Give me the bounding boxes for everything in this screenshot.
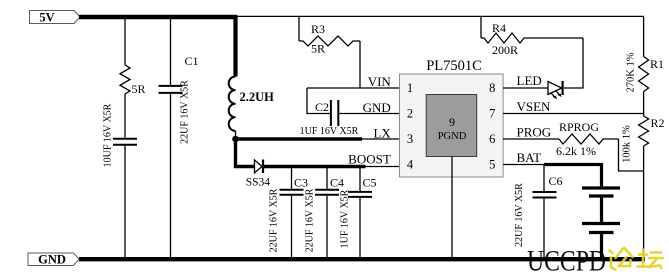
svg-text:200R: 200R xyxy=(492,43,518,57)
svg-text:PGND: PGND xyxy=(438,131,467,142)
svg-text:PROG: PROG xyxy=(517,125,552,140)
svg-text:5R: 5R xyxy=(311,42,325,56)
svg-text:C2: C2 xyxy=(315,100,329,114)
svg-text:22UF 16V X5R: 22UF 16V X5R xyxy=(180,80,191,144)
svg-text:270K 1%: 270K 1% xyxy=(626,52,637,92)
wire 5V rail thick xyxy=(79,15,237,19)
svg-text:1UF 16V X5R: 1UF 16V X5R xyxy=(300,126,359,137)
svg-text:SS34: SS34 xyxy=(246,177,271,189)
wire VIN xyxy=(307,87,400,89)
inductor 2.2UH xyxy=(229,15,274,139)
svg-text:R4: R4 xyxy=(492,21,506,35)
svg-text:5V: 5V xyxy=(39,10,54,24)
wire LX xyxy=(236,137,400,140)
svg-text:C5: C5 xyxy=(363,176,377,190)
svg-text:RPROG: RPROG xyxy=(559,120,599,134)
LED D1 xyxy=(548,81,563,99)
capacitor C6 xyxy=(514,165,563,259)
svg-text:C4: C4 xyxy=(330,176,344,190)
svg-text:22UF 16V X5R: 22UF 16V X5R xyxy=(514,183,525,247)
GND power tag xyxy=(28,252,79,266)
svg-text:3: 3 xyxy=(407,132,413,146)
wire pin 9 PGND to ground xyxy=(451,157,453,259)
resistor R1 xyxy=(626,16,665,113)
wire R4 to LED cathode xyxy=(564,38,583,88)
resistor R3 xyxy=(299,16,360,55)
svg-text:GND: GND xyxy=(38,252,66,266)
GND rail wire xyxy=(79,257,645,261)
svg-text:C3: C3 xyxy=(294,176,308,190)
svg-text:8: 8 xyxy=(489,81,495,95)
diode SS34 xyxy=(246,160,271,189)
IC inner pad PGND box xyxy=(426,95,477,157)
wire BOOST left segment xyxy=(236,139,255,167)
svg-text:7: 7 xyxy=(489,106,495,120)
resistor RPROG xyxy=(503,120,644,171)
svg-text:10UF 16V X5R: 10UF 16V X5R xyxy=(103,103,114,167)
svg-text:PL7501C: PL7501C xyxy=(426,58,482,74)
svg-text:LED: LED xyxy=(517,73,542,88)
svg-text:C1: C1 xyxy=(185,54,199,68)
svg-text:VIN: VIN xyxy=(368,74,392,89)
op-amp U1 PL7501C body xyxy=(400,58,504,177)
svg-text:GND: GND xyxy=(363,100,391,115)
wire 5V rail thin extension xyxy=(235,15,644,17)
svg-text:BAT: BAT xyxy=(517,150,542,165)
wire BAT thick xyxy=(544,163,602,166)
resistor R2 xyxy=(622,114,665,259)
capacitor 10UF 16V X5R xyxy=(103,103,138,258)
svg-text:22UF 16V X5R: 22UF 16V X5R xyxy=(305,188,316,252)
capacitor C1 xyxy=(159,19,199,258)
resistor 5R (input) xyxy=(120,19,146,138)
svg-text:5R: 5R xyxy=(132,82,146,96)
5V power tag xyxy=(30,10,81,24)
svg-text:BOOST: BOOST xyxy=(348,152,391,167)
wire BAT thin xyxy=(503,164,545,166)
svg-text:6.2k 1%: 6.2k 1% xyxy=(556,144,596,158)
svg-text:9: 9 xyxy=(449,115,455,129)
wire pin 8 to LED anode xyxy=(503,87,548,89)
capacitor C3 xyxy=(269,167,309,259)
capacitor C4 xyxy=(305,167,345,259)
battery BT1 xyxy=(582,163,620,259)
junction LX node xyxy=(232,136,239,143)
svg-text:4: 4 xyxy=(407,157,414,171)
svg-text:VSEN: VSEN xyxy=(517,99,552,114)
svg-text:R1: R1 xyxy=(650,57,664,71)
svg-text:5: 5 xyxy=(489,157,495,171)
svg-text:2.2UH: 2.2UH xyxy=(240,90,275,104)
svg-text:R2: R2 xyxy=(651,116,665,130)
wire VSEN to divider xyxy=(503,113,644,115)
svg-text:C6: C6 xyxy=(549,174,563,188)
svg-text:22UF 16V X5R: 22UF 16V X5R xyxy=(269,188,280,252)
svg-text:2: 2 xyxy=(407,106,413,120)
svg-text:UCCPD: UCCPD xyxy=(527,245,606,275)
capacitor C5 xyxy=(340,167,377,259)
resistor R4 xyxy=(481,16,583,57)
svg-text:1UF 16V X5R: 1UF 16V X5R xyxy=(340,189,351,248)
wire BOOST right of diode xyxy=(264,165,400,168)
svg-text:1: 1 xyxy=(407,81,413,95)
capacitor C2 with loop wires xyxy=(300,88,400,137)
wire R3 to VIN xyxy=(359,41,361,88)
watermark UCCPD forum xyxy=(527,245,663,275)
svg-text:LX: LX xyxy=(373,126,391,141)
svg-text:100k 1%: 100k 1% xyxy=(622,125,633,163)
svg-text:6: 6 xyxy=(489,132,495,146)
svg-text:R3: R3 xyxy=(311,22,325,36)
